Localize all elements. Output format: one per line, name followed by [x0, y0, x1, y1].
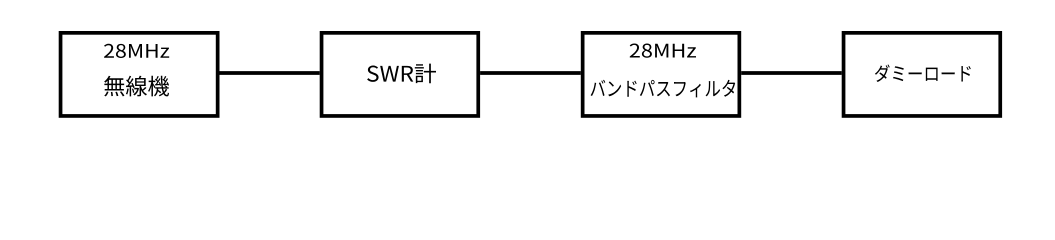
text "無線機" (box 1 line 2) [104, 76, 169, 97]
wire: box 2 to box 3 [480, 71, 581, 75]
block box 2: SWR meter (SWR計) [322, 33, 479, 116]
text "28MHz" (box 3 line 1) [630, 44, 696, 58]
text "ダミーロード" (box 4) [875, 65, 971, 82]
text "バンドパスフィルタ" (box 3 line 2) [591, 80, 736, 98]
block box 3: 28MHz band-pass filter (28MHz バンドパスフィルタ) [583, 33, 740, 116]
text "28MHz" (box 1 line 1) [104, 44, 169, 58]
block box 1: 28MHz transceiver (28MHz 無線機) [61, 33, 218, 116]
block box 4: dummy load (ダミーロード) [844, 33, 1001, 116]
text "SWR計" (box 2) [367, 64, 436, 84]
wire: box 3 to box 4 [741, 71, 842, 75]
wire: box 1 to box 2 [220, 71, 320, 75]
